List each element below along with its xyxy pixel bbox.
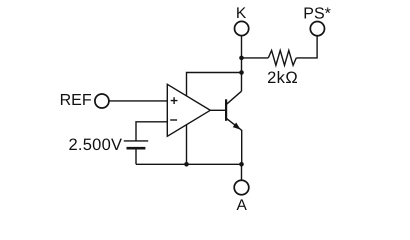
junction dot: anode rail / op-amp stub xyxy=(184,162,189,167)
terminal K circle xyxy=(235,21,249,35)
wire: REF input to op-amp non-inverting input xyxy=(109,100,168,102)
svg-text:PS*: PS* xyxy=(303,5,331,22)
wire: inverting input from internal 2.500V reference xyxy=(136,122,168,141)
junction dot: cathode/op-amp supply node xyxy=(239,70,244,75)
op-amp U1 (comparator triangle) xyxy=(167,84,210,136)
wire: horizontal from cathode node to resistor xyxy=(242,57,269,59)
wire: cathode vertical from K terminal down to collector bend xyxy=(241,36,243,92)
wire: anode rail down to A terminal xyxy=(241,164,243,180)
wire: op-amp top supply stub and horizontal to cathode line xyxy=(187,73,242,99)
svg-text:2.500V: 2.500V xyxy=(69,136,123,154)
terminal A circle xyxy=(234,180,249,195)
svg-text:2kΩ: 2kΩ xyxy=(267,69,298,87)
terminal REF circle xyxy=(95,94,109,108)
wire: resistor right side to PS* riser xyxy=(296,36,317,58)
transistor Q1 emitter arrowhead xyxy=(233,123,241,130)
junction dot: cathode/resistor node xyxy=(239,56,244,61)
battery V1 top plate (thin, 2.500V reference) xyxy=(124,140,148,142)
svg-text:K: K xyxy=(236,5,247,22)
wire: anode rail horizontal xyxy=(136,163,242,165)
op-amp minus input symbol xyxy=(170,119,177,121)
svg-text:A: A xyxy=(236,197,247,214)
op-amp plus input symbol xyxy=(171,97,178,104)
svg-text:REF: REF xyxy=(60,92,92,109)
terminal PS* circle xyxy=(310,22,324,36)
wire: op-amp bottom supply stub down to anode rail xyxy=(186,123,188,165)
wire: battery bottom down to anode rail xyxy=(135,150,137,165)
battery V1 bottom plate (thick) xyxy=(127,147,146,150)
resistor R (2 kOhm) zigzag xyxy=(268,50,296,65)
transistor Q1 collector lead xyxy=(227,91,242,104)
transistor Q1 base bar xyxy=(225,99,227,121)
wire: op-amp output to transistor base xyxy=(210,109,225,111)
junction dot: anode rail / emitter node xyxy=(239,162,244,167)
transistor Q1 emitter lead xyxy=(227,119,242,165)
